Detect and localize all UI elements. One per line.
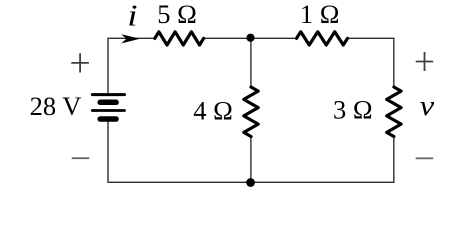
resistor R 1ohm zigzag xyxy=(297,32,348,45)
wire right lower xyxy=(393,136,395,183)
plus sign left xyxy=(71,53,89,72)
node junction top xyxy=(246,34,254,42)
plus sign right xyxy=(416,52,434,71)
battery V1 short plate 1 xyxy=(100,100,116,106)
svg-text:3 Ω: 3 Ω xyxy=(333,94,373,124)
wire top-right segment xyxy=(347,37,394,39)
resistor R 5ohm zigzag xyxy=(155,32,204,45)
svg-text:28 V: 28 V xyxy=(30,91,82,121)
svg-text:1 Ω: 1 Ω xyxy=(300,0,340,29)
wire bottom xyxy=(108,181,394,183)
resistor R 4ohm zigzag (vertical) xyxy=(244,87,258,137)
battery V1 long plate 2 xyxy=(92,109,124,112)
svg-text:i: i xyxy=(127,0,137,33)
svg-text:4 Ω: 4 Ω xyxy=(193,95,233,125)
wire top-left segment xyxy=(108,37,156,39)
wire left lower xyxy=(107,121,109,184)
wire top-middle segment xyxy=(203,37,297,39)
minus sign left xyxy=(72,157,90,159)
resistor R 3ohm zigzag (vertical) xyxy=(387,87,401,137)
battery V1 short plate 2 xyxy=(100,116,116,122)
wire left upper xyxy=(107,38,109,94)
minus sign right xyxy=(416,157,434,159)
wire middle-branch upper xyxy=(250,38,252,87)
node junction bottom xyxy=(246,178,255,187)
current arrow i xyxy=(121,34,140,43)
wire right upper xyxy=(393,38,395,88)
svg-text:v: v xyxy=(420,90,435,121)
battery V1 long plate 1 xyxy=(92,93,124,96)
wire middle-branch lower xyxy=(250,136,252,182)
svg-text:5 Ω: 5 Ω xyxy=(157,0,197,29)
